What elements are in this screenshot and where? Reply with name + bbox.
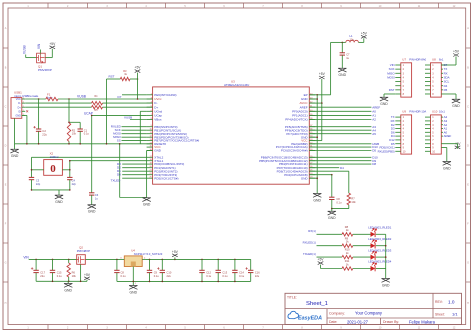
svg-text:PIN-HDR-8A0: PIN-HDR-8A0	[409, 58, 426, 62]
svg-text:8x1: 8x1	[439, 58, 444, 62]
svg-text:GND: GND	[130, 290, 138, 294]
svg-text:Date:: Date:	[329, 320, 337, 324]
svg-text:U7: U7	[402, 58, 406, 62]
svg-text:1/1: 1/1	[452, 312, 458, 317]
svg-text:SS: SS	[117, 139, 121, 143]
svg-text:L1: L1	[350, 34, 354, 38]
svg-text:GND: GND	[382, 283, 390, 287]
svg-text:D5: D5	[444, 88, 448, 92]
svg-text:Sheet_1: Sheet_1	[306, 301, 328, 307]
svg-text:+5V: +5V	[453, 50, 460, 54]
svg-text:0.1u: 0.1u	[84, 132, 90, 136]
svg-text:VIN: VIN	[23, 255, 29, 259]
svg-text:+5V: +5V	[135, 66, 142, 70]
svg-text:PMV48XP: PMV48XP	[77, 249, 90, 253]
svg-text:0.1u: 0.1u	[336, 200, 342, 204]
svg-text:ID: ID	[18, 110, 21, 113]
svg-text:GND: GND	[339, 73, 347, 77]
svg-text:0: 0	[50, 163, 56, 175]
svg-text:LED-0603_RLED1: LED-0603_RLED1	[368, 226, 392, 230]
svg-text:C14: C14	[239, 270, 244, 274]
svg-text:PMV48XP: PMV48XP	[38, 68, 52, 72]
svg-text:R6: R6	[72, 270, 76, 274]
svg-text:22u: 22u	[42, 133, 47, 137]
svg-text:GND: GND	[380, 102, 388, 106]
svg-text:G: G	[5, 262, 7, 265]
svg-text:RX(1): RX(1)	[308, 229, 316, 233]
svg-text:VCC: VCC	[16, 98, 21, 101]
svg-text:U8: U8	[432, 58, 436, 62]
svg-text:RST: RST	[109, 74, 115, 78]
svg-text:D-: D-	[18, 102, 21, 105]
svg-text:NCP1117-5.0_SOT223: NCP1117-5.0_SOT223	[134, 252, 163, 256]
svg-text:Felipe Makara: Felipe Makara	[409, 319, 436, 324]
svg-text:C13: C13	[222, 270, 227, 274]
svg-text:D4: D4	[340, 166, 344, 170]
svg-text:C17: C17	[40, 270, 45, 274]
svg-text:RXLED(1): RXLED(1)	[303, 241, 316, 245]
svg-text:0.1u: 0.1u	[121, 274, 127, 278]
svg-text:VUSB: VUSB	[77, 95, 87, 99]
svg-text:Your Company: Your Company	[355, 311, 383, 316]
svg-text:C9: C9	[154, 270, 158, 274]
svg-text:C4: C4	[72, 179, 76, 183]
svg-text:AREF: AREF	[444, 134, 452, 138]
svg-text:VUSB: VUSB	[124, 116, 132, 120]
svg-text:Sheet:: Sheet:	[435, 312, 445, 316]
svg-text:LED-0603_RLED2: LED-0603_RLED2	[368, 237, 392, 241]
svg-text:10k: 10k	[72, 274, 77, 278]
svg-text:1.0: 1.0	[448, 300, 455, 305]
svg-text:10u: 10u	[350, 38, 355, 42]
svg-text:10x1: 10x1	[439, 110, 445, 114]
svg-text:0.1u: 0.1u	[154, 274, 160, 278]
svg-text:GND: GND	[88, 210, 96, 214]
svg-text:C12: C12	[206, 270, 211, 274]
svg-text:EasyEDA: EasyEDA	[298, 315, 322, 321]
svg-text:H: H	[467, 302, 469, 305]
svg-text:RST: RST	[389, 88, 395, 92]
svg-text:0.1u: 0.1u	[222, 274, 228, 278]
svg-text:Company:: Company:	[329, 312, 345, 316]
svg-text:GND: GND	[313, 198, 321, 202]
svg-text:GND: GND	[143, 203, 151, 207]
svg-text:C: C	[467, 106, 469, 109]
svg-text:0.1u: 0.1u	[239, 274, 245, 278]
svg-text:VIN: VIN	[37, 43, 41, 49]
svg-text:10k: 10k	[351, 200, 356, 204]
svg-text:0.1u: 0.1u	[206, 274, 212, 278]
svg-text:10k: 10k	[72, 132, 77, 136]
svg-text:GND: GND	[11, 154, 19, 158]
svg-text:D0: D0	[117, 173, 121, 177]
svg-text:C15: C15	[57, 270, 62, 274]
svg-text:D5: D5	[372, 149, 376, 153]
svg-text:22p: 22p	[36, 182, 41, 186]
svg-text:PIN-HDR-10A: PIN-HDR-10A	[409, 110, 426, 114]
svg-text:A5: A5	[372, 132, 376, 136]
svg-text:GND: GND	[55, 200, 63, 204]
svg-text:D: D	[5, 145, 7, 148]
svg-text:GND: GND	[64, 288, 72, 292]
svg-text:C8: C8	[121, 270, 125, 274]
svg-text:22p: 22p	[72, 182, 77, 186]
svg-text:D8: D8	[372, 162, 376, 166]
svg-text:PD5(XCK1/CTS#): PD5(XCK1/CTS#)	[154, 176, 178, 180]
svg-text:LED-0603_RLED3: LED-0603_RLED3	[368, 248, 392, 252]
svg-text:D7: D7	[118, 95, 122, 99]
svg-text:TXLED: TXLED	[111, 179, 122, 183]
svg-text:PF4(ADC4/TCK): PF4(ADC4/TCK)	[285, 118, 307, 122]
svg-text:+5V: +5V	[172, 250, 179, 254]
svg-text:C16: C16	[255, 270, 260, 274]
svg-text:A2: A2	[372, 118, 376, 122]
svg-text:TXLED(1): TXLED(1)	[303, 252, 316, 256]
svg-text:LED-0603_RLED4: LED-0603_RLED4	[368, 260, 392, 264]
svg-text:GND: GND	[154, 149, 162, 153]
svg-text:ATMEGA32U4-MU: ATMEGA32U4-MU	[224, 83, 249, 87]
svg-text:REV:: REV:	[435, 300, 443, 304]
svg-text:TITLE:: TITLE:	[287, 296, 297, 300]
svg-text:H: H	[5, 302, 7, 305]
svg-text:U9: U9	[402, 110, 406, 114]
svg-text:22u: 22u	[255, 274, 260, 278]
svg-text:G: G	[467, 262, 469, 265]
svg-text:+5V: +5V	[361, 31, 368, 35]
svg-text:22u: 22u	[167, 274, 172, 278]
svg-text:+5V: +5V	[319, 72, 326, 76]
svg-text:+5V: +5V	[84, 273, 91, 277]
svg-text:GND: GND	[15, 115, 21, 118]
svg-text:C10: C10	[167, 270, 172, 274]
svg-text:GND: GND	[328, 216, 336, 220]
svg-text:+5V: +5V	[318, 258, 325, 262]
svg-text:VUSB: VUSB	[22, 45, 26, 54]
svg-text:C3: C3	[36, 179, 40, 183]
svg-text:16MHz: 16MHz	[50, 155, 60, 159]
svg-text:0.1u: 0.1u	[57, 274, 63, 278]
svg-text:C: C	[5, 106, 7, 109]
svg-text:GND: GND	[452, 104, 460, 108]
svg-text:RXLED(PB0): RXLED(PB0)	[378, 149, 395, 153]
svg-text:C6: C6	[95, 193, 99, 197]
svg-text:MOSI: MOSI	[387, 76, 395, 80]
svg-text:GND: GND	[301, 176, 309, 180]
svg-text:D: D	[467, 145, 469, 148]
svg-text:U10: U10	[432, 110, 438, 114]
svg-text:22u: 22u	[40, 274, 45, 278]
svg-text:Drawn By:: Drawn By:	[383, 320, 399, 324]
svg-text:+5V: +5V	[49, 42, 56, 46]
svg-text:PC6(OC3A/OC4A#): PC6(OC3A/OC4A#)	[281, 149, 308, 153]
svg-text:VBus: VBus	[154, 118, 162, 122]
svg-text:GND: GND	[443, 166, 451, 170]
svg-text:2021-01-27: 2021-01-27	[347, 319, 369, 324]
